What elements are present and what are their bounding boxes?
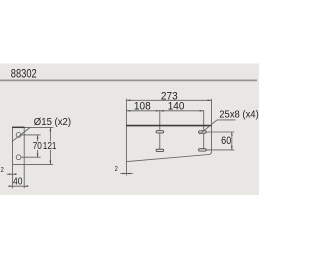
- svg-text:108: 108: [134, 101, 151, 112]
- svg-text:88302: 88302: [11, 67, 37, 80]
- svg-text:2: 2: [115, 166, 119, 174]
- svg-text:2: 2: [1, 166, 5, 174]
- svg-text:121: 121: [43, 140, 57, 151]
- svg-text:140: 140: [168, 101, 185, 112]
- svg-text:70: 70: [33, 140, 42, 151]
- svg-text:Ø15 (x2): Ø15 (x2): [34, 117, 71, 128]
- svg-text:25x8 (x4): 25x8 (x4): [219, 109, 258, 120]
- svg-text:40: 40: [13, 176, 22, 187]
- svg-text:60: 60: [221, 135, 231, 147]
